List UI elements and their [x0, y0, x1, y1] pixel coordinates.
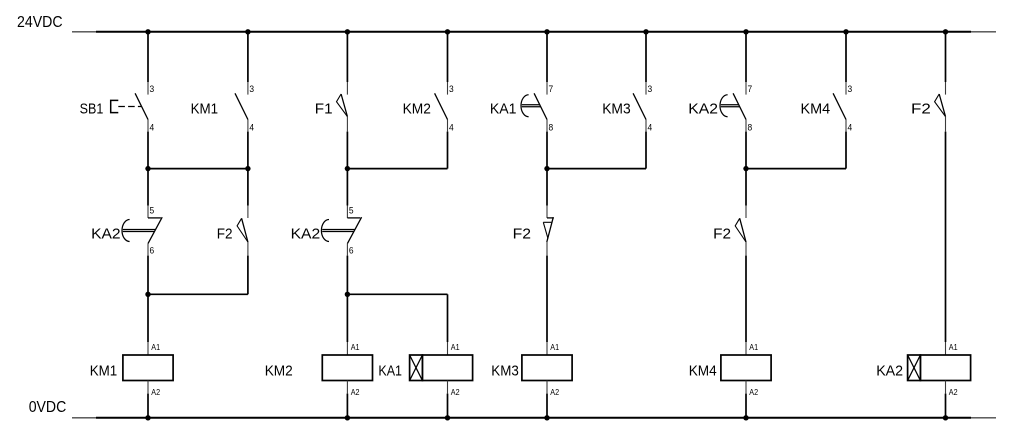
- node 0VDC return 2: [345, 415, 350, 420]
- node 0VDC return 6: [943, 415, 948, 420]
- svg-text:SB1: SB1: [80, 101, 104, 118]
- wire c9 top rail to F2: [945, 32, 947, 82]
- relay contact KA2 (NC off-delay 5-6): [122, 206, 162, 256]
- wire KM1 contact to junction row1: [247, 132, 249, 206]
- svg-text:5: 5: [150, 205, 155, 216]
- wire KA2 coil to 0VDC: [945, 394, 947, 418]
- 24VDC rail: [72, 31, 996, 33]
- coil KM2: [322, 342, 372, 394]
- wire junction row1 branch3: [547, 168, 646, 170]
- limit switch F1 (NO): [337, 82, 348, 132]
- wire junction row2 branch1: [148, 293, 248, 295]
- wire KA1 coil to 0VDC: [447, 394, 449, 418]
- svg-text:0VDC: 0VDC: [29, 399, 67, 416]
- wire KA2 to junction row2 and KM1 coil: [147, 256, 149, 342]
- SB1 push-button actuator: [111, 100, 142, 112]
- svg-text:KM4: KM4: [801, 101, 831, 118]
- svg-text:3: 3: [449, 84, 454, 95]
- svg-text:KA2: KA2: [688, 101, 718, 118]
- relay contact KA1 (NO off-delay 7-8): [521, 82, 547, 132]
- limit switch F2 (NO) branch4: [735, 206, 746, 256]
- svg-text:4: 4: [848, 122, 853, 133]
- svg-text:3: 3: [848, 84, 853, 95]
- node 24VDC tap 1: [145, 29, 150, 34]
- svg-text:KA2: KA2: [876, 363, 903, 380]
- svg-text:KM3: KM3: [491, 363, 519, 380]
- svg-text:8: 8: [748, 122, 753, 133]
- node 0VDC return 4: [544, 415, 549, 420]
- svg-text:KM2: KM2: [265, 363, 293, 380]
- wire F1 to junction row1: [346, 132, 348, 206]
- svg-text:KA2: KA2: [91, 225, 121, 242]
- svg-text:F2: F2: [217, 225, 233, 242]
- node branch1 row2: [145, 292, 150, 297]
- svg-text:3: 3: [648, 84, 653, 95]
- svg-text:A2: A2: [550, 387, 559, 397]
- contactor contact KM2 (NO 3-4): [435, 82, 448, 132]
- wire KA1 contact to junction row1: [546, 132, 548, 206]
- wire F2 to KM3 coil: [546, 256, 548, 342]
- svg-text:KA1: KA1: [378, 363, 402, 380]
- svg-text:4: 4: [150, 122, 155, 133]
- wire c3 top rail to F1: [346, 32, 348, 82]
- wire F2 down to crossover: [247, 256, 249, 295]
- wire c6 top rail to KM3 contact: [645, 32, 647, 82]
- wire junction row1 branch4: [746, 168, 846, 170]
- wire c7 top rail to KA2 contact: [745, 32, 747, 82]
- svg-text:KM1: KM1: [191, 101, 219, 118]
- svg-text:KM4: KM4: [689, 363, 717, 380]
- limit switch F2 (NO) branch5: [935, 82, 946, 132]
- relay contact KA2 (NO off-delay 7-8): [720, 82, 746, 132]
- node 24VDC tap 7: [743, 29, 748, 34]
- limit switch F2 (NC): [543, 206, 554, 256]
- limit switch F2 (NO): [237, 206, 248, 256]
- node 24VDC tap 3: [345, 29, 350, 34]
- node 24VDC tap 9: [943, 29, 948, 34]
- node branch1 row1 right: [245, 166, 250, 171]
- svg-text:4: 4: [648, 122, 653, 133]
- svg-text:F2: F2: [513, 225, 531, 242]
- svg-text:3: 3: [150, 84, 155, 95]
- svg-text:A2: A2: [949, 387, 958, 397]
- wire KM4 coil to 0VDC: [745, 394, 747, 418]
- svg-text:6: 6: [349, 246, 354, 257]
- svg-text:A2: A2: [351, 387, 360, 397]
- svg-text:A1: A1: [351, 342, 360, 352]
- wire F2 to KM4 coil: [745, 256, 747, 342]
- node branch4 row1: [743, 166, 748, 171]
- node 24VDC tap 2: [245, 29, 250, 34]
- 0VDC rail: [72, 417, 996, 419]
- node 0VDC return 5: [743, 415, 748, 420]
- node branch2 row1: [345, 166, 350, 171]
- wire c2 top rail to KM1 contact: [247, 32, 249, 82]
- coil KA2: [908, 342, 971, 394]
- svg-text:4: 4: [449, 122, 454, 133]
- node branch3 row1: [544, 166, 549, 171]
- svg-text:F1: F1: [315, 101, 333, 118]
- wire junction row1 branch1: [148, 168, 248, 170]
- svg-text:A1: A1: [949, 342, 958, 352]
- contactor contact KM3 (NO 3-4): [633, 82, 646, 132]
- contactor contact KM1 (NO 3-4): [235, 82, 248, 132]
- svg-text:A2: A2: [451, 387, 460, 397]
- wire c8 top rail to KM4 contact: [845, 32, 847, 82]
- svg-text:A1: A1: [451, 342, 460, 352]
- svg-text:KM2: KM2: [403, 101, 431, 118]
- wire to KA1 coil: [447, 294, 449, 342]
- node 0VDC return 1: [145, 415, 150, 420]
- wire KM2 coil to 0VDC: [346, 394, 348, 418]
- svg-text:F2: F2: [911, 101, 931, 118]
- svg-text:24VDC: 24VDC: [17, 14, 63, 31]
- svg-text:A2: A2: [151, 387, 160, 397]
- svg-text:KA2: KA2: [291, 225, 321, 242]
- svg-text:A1: A1: [151, 342, 160, 352]
- wire KM2 contact to junction row1: [447, 132, 449, 169]
- node branch2 row2: [345, 292, 350, 297]
- wire F2 down to KA2 coil: [945, 132, 947, 342]
- svg-text:A1: A1: [550, 342, 559, 352]
- wire KM1 coil to 0VDC: [147, 394, 149, 418]
- wire KM3 coil to 0VDC: [546, 394, 548, 418]
- wire KM3 contact to junction row1: [645, 132, 647, 169]
- svg-text:8: 8: [549, 122, 554, 133]
- svg-text:KA1: KA1: [490, 101, 517, 118]
- svg-text:A1: A1: [749, 342, 758, 352]
- wire c4 top rail to KM2 contact: [447, 32, 449, 82]
- svg-text:5: 5: [349, 205, 354, 216]
- svg-text:A2: A2: [749, 387, 758, 397]
- coil KA1: [410, 342, 473, 394]
- svg-text:3: 3: [249, 84, 254, 95]
- pushbutton SB1 (NO contact 3-4): [135, 82, 148, 132]
- svg-text:4: 4: [249, 122, 254, 133]
- relay contact KA2 (NC off-delay 5-6) branch2: [321, 206, 361, 256]
- node 24VDC tap 8: [843, 29, 848, 34]
- wire c5 top rail to KA1 contact: [546, 32, 548, 82]
- node branch1 row1 left: [145, 166, 150, 171]
- svg-text:6: 6: [150, 246, 155, 257]
- contactor contact KM4 (NO 3-4): [833, 82, 846, 132]
- svg-text:KM3: KM3: [602, 101, 631, 118]
- coil KM1: [123, 342, 173, 394]
- node 24VDC tap 4: [445, 29, 450, 34]
- svg-text:7: 7: [748, 84, 753, 95]
- node 24VDC tap 6: [643, 29, 648, 34]
- wire KA2 contact to junction row1: [745, 132, 747, 206]
- node 0VDC return 3: [445, 415, 450, 420]
- wire KA2 to KM2 coil: [346, 256, 348, 342]
- coil KM3: [522, 342, 572, 394]
- wire SB1 to junction row1: [147, 132, 149, 206]
- svg-text:KM1: KM1: [90, 363, 118, 380]
- wire junction row2 branch2: [347, 293, 447, 295]
- wire junction row1 branch2: [347, 168, 447, 170]
- node 24VDC tap 5: [544, 29, 549, 34]
- svg-text:F2: F2: [713, 225, 731, 242]
- wire KM4 contact to junction row1: [845, 132, 847, 169]
- svg-text:7: 7: [549, 84, 554, 95]
- coil KM4: [721, 342, 771, 394]
- wire c1 top rail to SB1: [147, 32, 149, 82]
